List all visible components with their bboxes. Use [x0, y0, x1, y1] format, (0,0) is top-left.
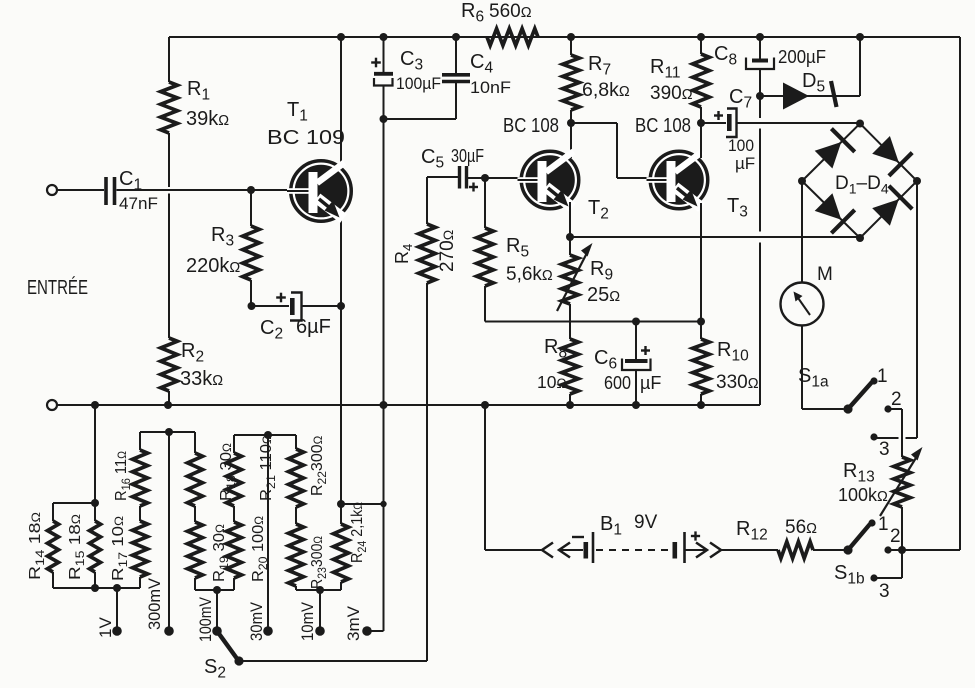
svg-text:3mV: 3mV: [345, 606, 363, 641]
svg-text:BC 108: BC 108: [503, 115, 559, 137]
svg-text:10mV: 10mV: [299, 602, 317, 641]
svg-text:µF: µF: [640, 373, 661, 393]
svg-text:1: 1: [877, 366, 888, 387]
svg-text:ENTRÉE: ENTRÉE: [27, 276, 88, 299]
svg-text:2: 2: [890, 526, 901, 547]
svg-text:3: 3: [879, 581, 890, 602]
svg-text:D1–D4: D1–D4: [835, 173, 889, 197]
svg-text:330Ω: 330Ω: [716, 372, 759, 393]
svg-text:56Ω: 56Ω: [785, 517, 817, 538]
svg-text:µF: µF: [735, 154, 755, 173]
svg-text:47nF: 47nF: [119, 194, 158, 213]
svg-text:10nF: 10nF: [470, 78, 511, 97]
svg-text:560Ω: 560Ω: [489, 1, 532, 22]
svg-text:3: 3: [879, 439, 890, 460]
svg-text:6µF: 6µF: [296, 316, 331, 338]
svg-text:30µF: 30µF: [451, 146, 484, 166]
svg-text:BC 109: BC 109: [267, 127, 345, 149]
svg-text:9V: 9V: [634, 512, 658, 533]
svg-text:2: 2: [891, 389, 902, 410]
svg-text:1V: 1V: [96, 617, 115, 638]
svg-text:270Ω: 270Ω: [437, 230, 458, 272]
svg-text:5,6kΩ: 5,6kΩ: [506, 264, 553, 285]
svg-text:BC 108: BC 108: [635, 115, 691, 137]
svg-text:300mV: 300mV: [146, 578, 164, 630]
svg-text:100mV: 100mV: [197, 597, 215, 642]
svg-text:200µF: 200µF: [778, 47, 826, 67]
svg-text:1: 1: [878, 514, 889, 535]
svg-text:390Ω: 390Ω: [650, 83, 693, 104]
svg-text:30mV: 30mV: [248, 602, 266, 641]
svg-text:100: 100: [728, 136, 754, 155]
svg-text:600: 600: [604, 373, 631, 393]
svg-text:100µF: 100µF: [396, 74, 441, 93]
svg-text:M: M: [817, 264, 833, 285]
